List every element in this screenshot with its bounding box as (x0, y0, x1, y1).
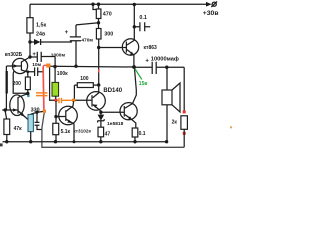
svg-text:300: 300 (104, 31, 113, 37)
svg-text:470м: 470м (81, 38, 93, 44)
svg-text:330: 330 (31, 107, 40, 113)
svg-text:2к: 2к (172, 120, 178, 126)
svg-text:5.1к: 5.1к (61, 129, 71, 135)
svg-text:кп302Б: кп302Б (5, 52, 23, 58)
svg-text:24в: 24в (36, 31, 46, 37)
svg-text:10000маф: 10000маф (151, 55, 179, 62)
svg-text:10м: 10м (32, 62, 41, 68)
svg-text:15в: 15в (139, 81, 148, 87)
svg-text:1000м: 1000м (51, 52, 66, 58)
svg-text:47к: 47к (14, 126, 23, 132)
svg-text:47: 47 (105, 131, 111, 137)
svg-text:1н5818: 1н5818 (107, 121, 124, 127)
svg-text:+30в: +30в (203, 10, 219, 17)
svg-text:100к: 100к (57, 71, 68, 77)
svg-text:0.1: 0.1 (139, 131, 146, 137)
svg-text:+: + (65, 30, 69, 36)
svg-text:470: 470 (103, 12, 112, 18)
svg-text:0.1: 0.1 (139, 15, 147, 21)
svg-text:кт3102е: кт3102е (73, 129, 91, 134)
svg-text:+: + (32, 52, 36, 58)
svg-text:100: 100 (80, 76, 89, 82)
svg-text:кт863: кт863 (144, 45, 158, 51)
svg-text:200: 200 (13, 81, 22, 87)
svg-text:1,5к: 1,5к (36, 23, 46, 29)
svg-text:+: + (145, 59, 149, 65)
svg-text:BD140: BD140 (103, 88, 122, 94)
